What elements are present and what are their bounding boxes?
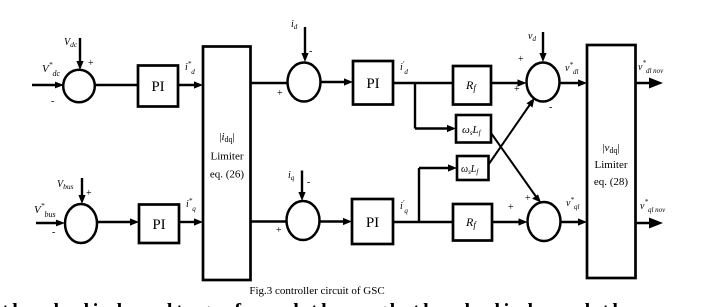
summing junction S3 [288, 63, 321, 102]
svg-text:|vdq|: |vdq| [602, 142, 619, 155]
wire Rf2 to S6 [492, 218, 528, 225]
wire vd input [539, 32, 546, 62]
svg-text:V*bus: V*bus [34, 201, 56, 219]
svg-text:ωsLf: ωsLf [461, 164, 479, 176]
svg-text:Vbus: Vbus [57, 179, 74, 191]
svg-text:Limiter: Limiter [211, 151, 244, 163]
svg-text:iq: iq [288, 170, 295, 182]
resistor block Rf2 [453, 204, 492, 241]
svg-text:+: + [525, 193, 531, 204]
svg-text:Fig.3 controller circuit of GS: Fig.3 controller circuit of GSC [249, 285, 384, 297]
svg-text:|idq|: |idq| [219, 131, 234, 144]
svg-text:-: - [309, 46, 312, 57]
svg-text:ωsLf: ωsLf [462, 124, 482, 137]
PI controller PI4 [353, 61, 393, 105]
svg-text:+: + [518, 54, 524, 65]
summing junction S1 [63, 70, 95, 103]
svg-text:Limiter: Limiter [595, 159, 628, 171]
summing junction S6 [528, 202, 561, 241]
wire limiter to S3 [251, 82, 288, 84]
svg-text:vd: vd [528, 31, 536, 43]
wire PI1 to limiter [178, 81, 203, 88]
wire input V*dc [32, 82, 64, 89]
wire branch i'q to wsLf2 [419, 164, 457, 222]
svg-text:i*d: i*d [185, 60, 195, 76]
svg-text:PI: PI [366, 215, 379, 231]
svg-text:+: + [88, 58, 94, 69]
svg-text:the dc link voltage found thro: the dc link voltage found through the dc… [2, 300, 636, 307]
wire Rf1 to S5 [491, 79, 527, 86]
svg-text:-: - [51, 96, 54, 107]
summing junction S2 [65, 204, 97, 243]
svg-text:-: - [52, 227, 55, 238]
svg-text:v*ql nov: v*ql nov [640, 198, 666, 214]
wire S2 to PI2 [97, 218, 139, 225]
wire input V*bus [36, 220, 65, 227]
wire Vbus input [78, 178, 85, 204]
wire S3 to PI4 [321, 78, 354, 85]
svg-text:eq. (26): eq. (26) [210, 169, 245, 181]
wire id input [301, 27, 308, 62]
PI controller PI2 [139, 205, 179, 244]
svg-text:PI: PI [151, 79, 164, 95]
wire Vdc input [76, 38, 83, 70]
limiter block U2 eq.(28) [587, 45, 636, 278]
PI controller PI3 [352, 199, 393, 244]
svg-text:-: - [549, 102, 552, 113]
svg-text:PI: PI [152, 217, 165, 233]
wire PI2 to limiter [179, 218, 203, 225]
resistor block Rf1 [453, 66, 491, 105]
wire output v*ql nov [636, 218, 664, 229]
wire PI3 to Rf2 [393, 221, 453, 223]
svg-text:-: - [307, 177, 310, 188]
summing junction S4 [287, 201, 320, 240]
svg-text:+: + [514, 84, 520, 95]
svg-text:eq. (28): eq. (28) [594, 176, 629, 188]
svg-text:i*q: i*q [186, 197, 196, 213]
summing junction S5 [527, 63, 560, 102]
svg-text:PI: PI [366, 76, 379, 92]
svg-text:v*dl: v*dl [565, 61, 578, 76]
coupling block wsLf1 [456, 115, 491, 143]
limiter block U1 eq.(26) [203, 47, 251, 281]
PI controller PI1 [138, 66, 178, 107]
svg-text:Rf: Rf [465, 78, 477, 93]
svg-text:Vdc: Vdc [64, 37, 78, 49]
wire iq input [298, 171, 305, 202]
wire S4 to PI3 [320, 218, 353, 225]
svg-text:Rf: Rf [465, 215, 477, 230]
svg-text:+: + [508, 202, 514, 213]
wire diagonal wsLf1 to S6 [491, 133, 541, 203]
wire diagonal wsLf2 to S5 [489, 98, 535, 165]
svg-text:i′d: i′d [400, 60, 408, 76]
svg-text:v*dl nov: v*dl nov [638, 59, 664, 75]
svg-text:+: + [86, 188, 92, 199]
wire branch i'd to wsLf1 [415, 83, 456, 132]
wire output v*dl nov [636, 78, 664, 89]
svg-text:V*dc: V*dc [42, 60, 60, 78]
wire limiter to S4 [251, 220, 287, 222]
wire S6 to limiter2 [561, 218, 588, 225]
svg-text:id: id [291, 19, 298, 31]
svg-text:+: + [277, 88, 283, 99]
wire S5 to limiter2 [560, 79, 588, 86]
wire S1 to PI1 [95, 84, 138, 86]
coupling block wsLf2 [457, 156, 489, 180]
svg-text:v*ql: v*ql [566, 196, 579, 211]
svg-text:i′q: i′q [400, 199, 408, 215]
svg-text:+: + [276, 225, 282, 236]
wire PI4 to Rf1 [393, 82, 453, 84]
